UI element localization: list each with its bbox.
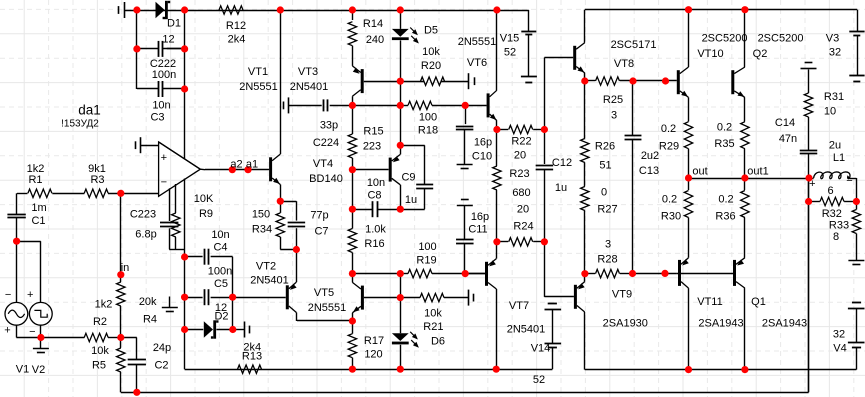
svg-text:52: 52 — [504, 47, 516, 59]
svg-text:C11: C11 — [468, 224, 487, 236]
svg-text:V4: V4 — [833, 343, 846, 355]
svg-text:R24: R24 — [513, 221, 533, 233]
svg-text:3: 3 — [611, 110, 617, 122]
svg-text:D1: D1 — [167, 17, 181, 29]
svg-text:C9: C9 — [401, 171, 415, 183]
svg-text:R35: R35 — [714, 138, 734, 150]
svg-text:V1: V1 — [16, 364, 29, 376]
svg-text:32: 32 — [833, 329, 845, 341]
svg-text:da1: da1 — [78, 103, 101, 118]
svg-text:100n: 100n — [152, 69, 176, 81]
svg-text:Q1: Q1 — [751, 296, 766, 308]
svg-text:1k2: 1k2 — [95, 299, 113, 311]
svg-text:−: − — [29, 326, 35, 338]
svg-text:out: out — [692, 166, 707, 178]
svg-text:VT3: VT3 — [298, 66, 318, 78]
svg-text:2N5551: 2N5551 — [458, 36, 497, 48]
svg-text:R16: R16 — [364, 238, 384, 250]
svg-text:+: + — [27, 289, 33, 301]
svg-text:223: 223 — [363, 141, 381, 153]
svg-text:VT2: VT2 — [256, 261, 276, 273]
svg-text:+: + — [161, 152, 167, 164]
svg-text:D6: D6 — [431, 336, 445, 348]
svg-text:100n: 100n — [208, 266, 232, 278]
svg-text:2SC5200: 2SC5200 — [758, 33, 804, 45]
svg-text:2N5551: 2N5551 — [308, 302, 347, 314]
svg-text:R19: R19 — [416, 255, 436, 267]
svg-text:2SC5171: 2SC5171 — [611, 39, 657, 51]
svg-text:VT7: VT7 — [509, 300, 529, 312]
svg-text:2N5551: 2N5551 — [239, 81, 278, 93]
svg-text:100: 100 — [419, 112, 437, 124]
svg-text:2u2: 2u2 — [641, 150, 659, 162]
svg-text:R31: R31 — [824, 91, 844, 103]
svg-text:C224: C224 — [313, 137, 339, 149]
svg-text:R34: R34 — [252, 224, 272, 236]
svg-text:R33: R33 — [829, 219, 849, 231]
svg-text:6.8p: 6.8p — [135, 229, 156, 241]
svg-text:V14: V14 — [531, 343, 551, 355]
svg-text:R23: R23 — [509, 168, 529, 180]
svg-text:R18: R18 — [418, 124, 438, 136]
svg-text:R15: R15 — [363, 126, 383, 138]
svg-text:D5: D5 — [424, 25, 438, 37]
svg-text:2SA1943: 2SA1943 — [698, 318, 743, 330]
svg-text:51: 51 — [599, 160, 611, 172]
svg-text:0: 0 — [601, 187, 607, 199]
svg-text:100: 100 — [418, 241, 436, 253]
svg-text:20k: 20k — [139, 296, 157, 308]
svg-text:R14: R14 — [363, 18, 383, 30]
svg-text:!153УД2: !153УД2 — [61, 119, 99, 130]
svg-text:R25: R25 — [603, 94, 623, 106]
svg-text:D2: D2 — [214, 311, 228, 323]
svg-text:R2: R2 — [93, 316, 107, 328]
svg-text:BD140: BD140 — [309, 173, 343, 185]
svg-text:R27: R27 — [597, 204, 617, 216]
svg-text:6: 6 — [827, 185, 833, 197]
svg-text:3: 3 — [605, 239, 611, 251]
svg-text:10: 10 — [824, 106, 836, 118]
svg-text:0.2: 0.2 — [717, 122, 732, 134]
svg-text:240: 240 — [366, 34, 384, 46]
svg-text:2N5401: 2N5401 — [250, 275, 289, 287]
svg-text:33p: 33p — [320, 120, 338, 132]
svg-text:2k4: 2k4 — [228, 34, 246, 46]
svg-text:2SC5200: 2SC5200 — [702, 33, 748, 45]
svg-text:V2: V2 — [32, 364, 45, 376]
svg-text:C13: C13 — [639, 165, 659, 177]
svg-text:2N5401: 2N5401 — [290, 81, 329, 93]
svg-text:R12: R12 — [226, 20, 246, 32]
svg-text:C10: C10 — [472, 151, 492, 163]
svg-text:VT4: VT4 — [313, 158, 333, 170]
svg-text:C5: C5 — [214, 278, 228, 290]
svg-text:−: − — [846, 175, 852, 187]
svg-text:a1: a1 — [246, 159, 258, 171]
svg-text:R5: R5 — [92, 360, 106, 372]
svg-text:20: 20 — [514, 150, 526, 162]
svg-text:R1: R1 — [28, 174, 42, 186]
svg-text:R28: R28 — [597, 254, 617, 266]
svg-text:10n: 10n — [211, 229, 229, 241]
svg-text:10K: 10K — [194, 193, 214, 205]
svg-text:120: 120 — [364, 349, 382, 361]
svg-text:Q2: Q2 — [753, 48, 768, 60]
svg-text:C7: C7 — [314, 226, 328, 238]
svg-text:R26: R26 — [595, 141, 615, 153]
svg-text:R29: R29 — [659, 141, 679, 153]
svg-text:0.2: 0.2 — [661, 123, 676, 135]
svg-text:VT8: VT8 — [614, 58, 634, 70]
svg-text:C14: C14 — [775, 117, 795, 129]
svg-text:VT11: VT11 — [697, 296, 722, 308]
svg-text:R13: R13 — [242, 350, 262, 362]
svg-text:2SA1943: 2SA1943 — [762, 318, 807, 330]
svg-text:R36: R36 — [715, 211, 735, 223]
svg-text:1u: 1u — [405, 194, 417, 206]
svg-text:R30: R30 — [661, 211, 681, 223]
svg-text:C12: C12 — [552, 157, 572, 169]
svg-text:77p: 77p — [310, 210, 328, 222]
svg-text:2u: 2u — [829, 140, 841, 152]
svg-text:24p: 24p — [153, 342, 171, 354]
svg-text:VT1: VT1 — [248, 66, 268, 78]
svg-text:R17: R17 — [364, 335, 384, 347]
svg-text:10k: 10k — [422, 46, 440, 58]
svg-text:R21: R21 — [423, 321, 443, 333]
svg-text:C1: C1 — [31, 215, 45, 227]
svg-text:V3: V3 — [826, 33, 839, 45]
svg-text:2SA1930: 2SA1930 — [603, 318, 648, 330]
svg-text:1.0k: 1.0k — [365, 224, 386, 236]
svg-text:C3: C3 — [150, 112, 164, 124]
svg-text:VT6: VT6 — [467, 57, 487, 69]
svg-text:R9: R9 — [199, 208, 213, 220]
svg-text:+: + — [4, 325, 10, 337]
svg-text:8: 8 — [833, 231, 839, 243]
svg-text:150: 150 — [252, 209, 270, 221]
svg-text:out1: out1 — [747, 166, 768, 178]
svg-text:−: − — [5, 289, 11, 301]
svg-text:VT10: VT10 — [697, 48, 723, 60]
svg-text:0.2: 0.2 — [662, 194, 677, 206]
svg-text:C223: C223 — [130, 209, 156, 221]
svg-text:47n: 47n — [779, 133, 797, 145]
svg-text:16p: 16p — [471, 211, 489, 223]
svg-text:+: + — [809, 178, 815, 190]
svg-text:0.2: 0.2 — [718, 194, 733, 206]
svg-text:1m: 1m — [31, 202, 46, 214]
svg-text:32: 32 — [829, 47, 841, 59]
svg-text:10n: 10n — [367, 177, 385, 189]
svg-text:2N5401: 2N5401 — [507, 324, 546, 336]
svg-text:16p: 16p — [474, 137, 492, 149]
svg-text:a2: a2 — [230, 159, 242, 171]
svg-text:10n: 10n — [152, 100, 170, 112]
svg-text:C8: C8 — [367, 189, 381, 201]
svg-text:VT9: VT9 — [612, 289, 632, 301]
svg-text:12: 12 — [162, 34, 174, 46]
svg-text:R3: R3 — [90, 174, 104, 186]
svg-text:1u: 1u — [555, 182, 567, 194]
svg-text:R22: R22 — [511, 136, 531, 148]
svg-text:C2: C2 — [154, 360, 168, 372]
svg-text:−: − — [161, 176, 167, 188]
svg-text:in: in — [121, 262, 130, 274]
svg-text:10k: 10k — [424, 307, 442, 319]
svg-text:R20: R20 — [421, 60, 441, 72]
svg-text:L1: L1 — [833, 152, 845, 164]
svg-text:52: 52 — [533, 374, 545, 386]
svg-text:R4: R4 — [143, 314, 157, 326]
svg-text:VT5: VT5 — [314, 287, 334, 299]
svg-text:20: 20 — [517, 204, 529, 216]
svg-text:C4: C4 — [213, 242, 227, 254]
svg-text:10k: 10k — [91, 345, 109, 357]
svg-text:680: 680 — [512, 187, 530, 199]
svg-text:V15: V15 — [500, 33, 520, 45]
